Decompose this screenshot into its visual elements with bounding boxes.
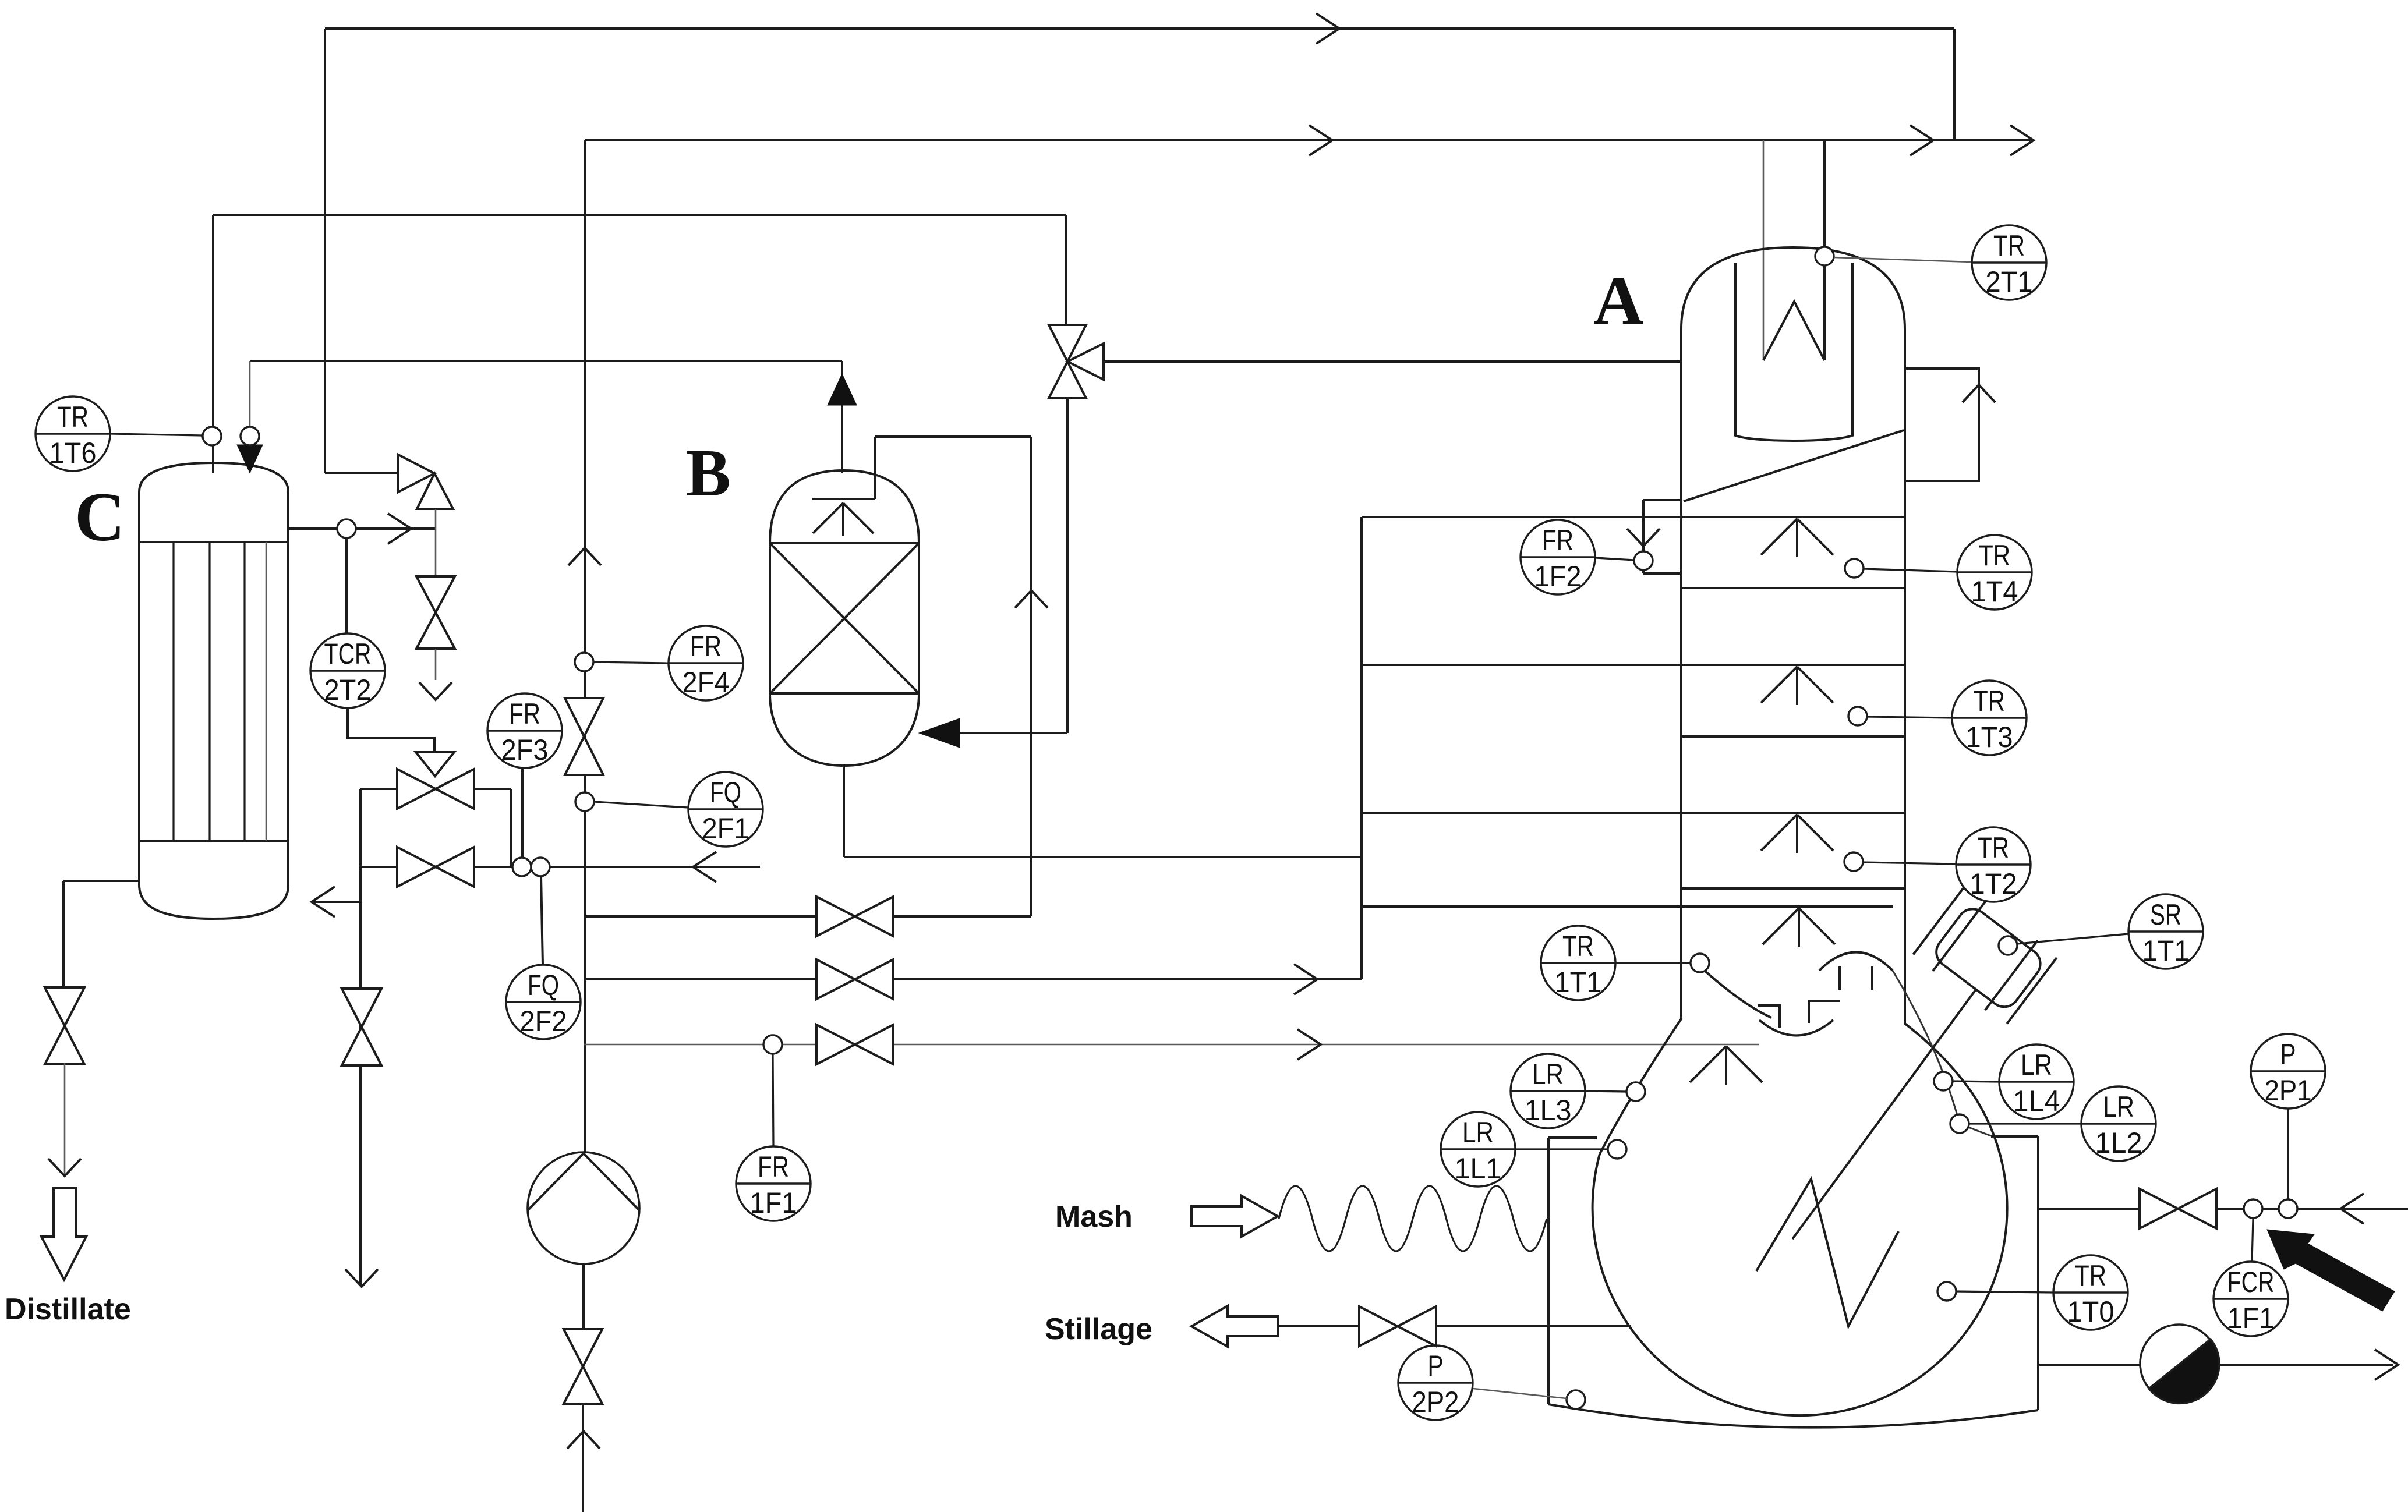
tray symbol 3 bbox=[1761, 815, 1833, 853]
wire left drain vertical bbox=[359, 789, 362, 1286]
svg-text:FR: FR bbox=[758, 1150, 789, 1183]
TCR control arrow bbox=[416, 752, 454, 776]
instrument TR 1T6 bbox=[36, 396, 110, 471]
tray symbol 2 bbox=[1761, 667, 1833, 705]
wire vertical from L1 to angle valve bbox=[324, 29, 326, 473]
pump distillate bbox=[528, 1152, 639, 1264]
condenser C tube 4 bbox=[266, 542, 267, 841]
wire mash riser bbox=[1547, 1138, 1550, 1219]
wire feed drop bbox=[1642, 500, 1645, 552]
valve on riser bbox=[565, 698, 603, 775]
kettle shell bbox=[1593, 1093, 2007, 1415]
black arrow down into C bbox=[237, 445, 263, 473]
wire arrow on L1 bbox=[1316, 13, 1339, 44]
node LR 1L3 tap bbox=[1626, 1082, 1645, 1101]
node twin A bbox=[512, 858, 531, 876]
svg-text:1T3: 1T3 bbox=[1966, 721, 2013, 753]
wire FR 1F2 lead bbox=[1596, 558, 1634, 560]
kettle jacket left wall bbox=[1547, 1138, 1550, 1404]
instrument TR 1T2 bbox=[1956, 827, 2031, 902]
valve on distillate line bbox=[45, 987, 84, 1064]
equipment-label A bbox=[1593, 261, 1644, 339]
column A right wall bbox=[1904, 329, 1906, 1024]
svg-text:LR: LR bbox=[1532, 1058, 1564, 1090]
tray symbol 1 bbox=[1761, 519, 1833, 557]
wire top line L1 (vapor to condenser header) bbox=[325, 29, 1954, 140]
instrument TR 1T1 bbox=[1541, 926, 1615, 1000]
instrument FCR 1F1 bbox=[2213, 1262, 2288, 1336]
wire B feed down-pipe bbox=[874, 437, 876, 499]
node LR 1L2 tap bbox=[1950, 1114, 1969, 1133]
valve on left drain bbox=[342, 989, 381, 1065]
valve on steam line bbox=[2140, 1189, 2216, 1228]
wire FCR lead bbox=[2252, 1218, 2253, 1262]
instrument TR 2T1 bbox=[1972, 225, 2046, 300]
wire valve line 2 bbox=[584, 978, 1362, 980]
vessel B shell bbox=[770, 470, 919, 766]
wire verticals from L2 into column A dome bbox=[1763, 140, 1824, 360]
instrument LR 1L2 bbox=[2081, 1086, 2156, 1161]
wire open arrow vent drain bbox=[419, 682, 452, 700]
wire FR 1F1 lead bbox=[773, 1054, 773, 1146]
condenser C shell bbox=[139, 463, 288, 919]
svg-text:LR: LR bbox=[2103, 1090, 2134, 1123]
wire top line L2 bbox=[585, 139, 2034, 141]
node FR 1F2 tap bbox=[1634, 551, 1653, 570]
wire arrow up on riser bbox=[568, 548, 601, 565]
wire LR 1L4 lead bbox=[1953, 1081, 1999, 1082]
tray ext line 4 bbox=[1362, 905, 1893, 908]
wire B bottoms run bbox=[844, 856, 1362, 858]
node twin B bbox=[531, 858, 550, 876]
vessel B packing X bbox=[770, 543, 919, 693]
svg-text:SR: SR bbox=[2150, 898, 2181, 931]
wire open arrow left drain bbox=[345, 1269, 378, 1287]
wire feed branch top bbox=[1643, 499, 1681, 501]
angle valve body bbox=[398, 455, 453, 509]
wire C inlet right vertical bbox=[249, 361, 251, 473]
node FR 2F4 tap bbox=[575, 653, 593, 671]
svg-text:Mash: Mash bbox=[1055, 1200, 1133, 1234]
svg-text:TCR: TCR bbox=[324, 638, 372, 670]
kettle left shoulder bbox=[1600, 1019, 1681, 1154]
node on C vent line bbox=[337, 519, 356, 538]
tray int line 3 bbox=[1681, 887, 1905, 890]
wire arrow line2 bbox=[1294, 964, 1317, 994]
wire three-way bottom drop bbox=[1066, 398, 1069, 733]
wire FR 2F3 tap bbox=[521, 768, 524, 858]
condenser C tube 3 bbox=[243, 542, 245, 841]
svg-text:Distillate: Distillate bbox=[5, 1293, 131, 1326]
svg-text:TR: TR bbox=[1974, 685, 2005, 717]
helmet left arc bbox=[1705, 971, 1771, 1018]
node LR 1L4 tap bbox=[1934, 1072, 1953, 1090]
instrument FQ 2F1 bbox=[688, 772, 763, 847]
wire three-way to column A bbox=[1104, 360, 1681, 363]
wire arrow up feed bottom bbox=[567, 1431, 600, 1449]
wire arrows on L2 bbox=[1309, 125, 2034, 155]
kettle jacket right wall bbox=[2037, 1136, 2039, 1410]
equipment-label B bbox=[686, 436, 731, 510]
helmet stub 2 bbox=[1871, 966, 1873, 990]
instrument TR 1T4 bbox=[1957, 535, 2032, 610]
svg-text:1L3: 1L3 bbox=[1525, 1094, 1572, 1127]
svg-text:TR: TR bbox=[57, 401, 89, 433]
instrument TR 1T3 bbox=[1952, 681, 2027, 755]
svg-text:FCR: FCR bbox=[2227, 1266, 2275, 1298]
column A chimney diagonal bbox=[1684, 430, 1904, 501]
instrument TR 1T0 bbox=[2053, 1255, 2128, 1330]
wire vertical from L2 main riser bbox=[584, 140, 586, 1155]
valve on vent drain bbox=[416, 576, 455, 649]
svg-text:FQ: FQ bbox=[710, 776, 741, 809]
node FCR tap bbox=[2244, 1199, 2262, 1218]
instrument LR 1L3 bbox=[1511, 1054, 1585, 1128]
svg-text:1T1: 1T1 bbox=[2142, 934, 2190, 967]
valve line3 valve bbox=[816, 1025, 893, 1064]
svg-text:2P2: 2P2 bbox=[1412, 1386, 1459, 1418]
label Distillate bbox=[5, 1293, 131, 1326]
valve bypass lower bbox=[397, 847, 474, 887]
wire TCR output bbox=[348, 708, 434, 752]
svg-text:FQ: FQ bbox=[528, 969, 559, 1001]
column A dome bbox=[1681, 247, 1905, 329]
manifold vertical bbox=[1360, 517, 1363, 979]
node TR 1T1 tap bbox=[1691, 954, 1709, 972]
wire line L4 (vapor B to condenser C) bbox=[250, 360, 842, 362]
wire C reflux inlet bbox=[312, 901, 360, 903]
valve line1 valve bbox=[816, 897, 893, 936]
wire P 2P1 lead bbox=[2287, 1109, 2289, 1199]
svg-text:B: B bbox=[686, 436, 731, 510]
wire angle valve drop bbox=[435, 509, 437, 580]
instrument P 2P1 bbox=[2251, 1034, 2325, 1109]
svg-text:FR: FR bbox=[1542, 524, 1573, 557]
node on C top right bbox=[241, 427, 259, 445]
label Stillage bbox=[1045, 1312, 1152, 1346]
wire bottoms pump line bbox=[2038, 1364, 2393, 1366]
wire bypass right vertical bbox=[510, 789, 512, 867]
kettle jacket stub right bbox=[1991, 1135, 2038, 1138]
wire vertical from L4 down to vessel B vent bbox=[841, 361, 843, 473]
wire C vent outlet right bbox=[288, 527, 436, 530]
helmet top arc bbox=[1819, 952, 1893, 971]
wire arrow line3 bbox=[1297, 1029, 1321, 1060]
wire TR 1T0 lead bbox=[1956, 1291, 2053, 1293]
wire arrow left steam bbox=[2340, 1194, 2364, 1224]
svg-text:1L2: 1L2 bbox=[2095, 1127, 2142, 1159]
wire B side inlet bbox=[955, 732, 1067, 734]
kettle right shoulder bbox=[1905, 1024, 1972, 1093]
three-way valve bbox=[1049, 325, 1104, 398]
instrument TCR 2T2 bbox=[310, 633, 385, 708]
kettle jacket stub left bbox=[1548, 1136, 1597, 1139]
wire TR 2T1 lead bbox=[1834, 257, 1971, 262]
wire C inlet left vertical bbox=[212, 215, 214, 473]
instrument LR 1L1 bbox=[1441, 1112, 1515, 1187]
svg-text:FR: FR bbox=[690, 630, 722, 663]
svg-text:1F1: 1F1 bbox=[2227, 1302, 2275, 1334]
svg-text:1T2: 1T2 bbox=[1970, 867, 2017, 900]
valve control upper bbox=[397, 769, 474, 809]
kettle jacket bottom bbox=[1548, 1404, 2038, 1428]
wire TCR tap bbox=[345, 538, 348, 633]
helmet bracket left bbox=[1758, 1005, 1780, 1028]
svg-text:LR: LR bbox=[1462, 1116, 1494, 1149]
node SR 1T1 tap bbox=[1999, 936, 2017, 955]
wire arrow up in side box bbox=[1963, 385, 1995, 402]
node P 2P1 tap bbox=[2279, 1199, 2297, 1218]
tray ext line 3 bbox=[1362, 812, 1904, 814]
wire feed bottom bbox=[582, 1404, 584, 1512]
instrument FR 2F4 bbox=[669, 626, 743, 700]
svg-text:2T2: 2T2 bbox=[324, 674, 372, 706]
tray int line 2 bbox=[1681, 735, 1905, 738]
condenser C tube 2 bbox=[208, 542, 210, 841]
wire FQ 2F1 lead bbox=[594, 802, 688, 808]
wire arrow right pump line bbox=[2375, 1350, 2398, 1380]
svg-text:TR: TR bbox=[1978, 831, 2009, 864]
svg-text:1L4: 1L4 bbox=[2013, 1085, 2060, 1117]
svg-text:1F1: 1F1 bbox=[750, 1187, 797, 1219]
svg-text:TR: TR bbox=[1979, 539, 2010, 572]
wire arrow down feed drop bbox=[1627, 529, 1660, 546]
kettle inner curve right bbox=[1893, 971, 1991, 1136]
block arrow Distillate bbox=[41, 1188, 86, 1280]
valve stillage bbox=[1359, 1306, 1436, 1346]
svg-text:TR: TR bbox=[2075, 1259, 2106, 1292]
instrument SR 1T1 bbox=[2128, 894, 2203, 969]
instrument FR 1F1 bbox=[736, 1146, 811, 1221]
node 1T4 tap bbox=[1845, 559, 1864, 578]
svg-text:2F3: 2F3 bbox=[501, 734, 549, 766]
wire feed branch bottom bbox=[1643, 570, 1681, 573]
node LR 1L1 tap bbox=[1608, 1140, 1626, 1159]
node P 2P2 tap bbox=[1567, 1390, 1585, 1409]
block arrow Stillage bbox=[1191, 1306, 1278, 1347]
svg-text:1T0: 1T0 bbox=[2067, 1295, 2114, 1328]
wire arrow on C vent line bbox=[388, 514, 411, 544]
wire LR 1L2 lead bbox=[1969, 1123, 2081, 1124]
wire distillate drop bbox=[64, 1063, 66, 1175]
svg-text:P: P bbox=[2280, 1038, 2296, 1071]
svg-text:A: A bbox=[1593, 261, 1644, 339]
wire arrow on lower line bbox=[693, 852, 716, 882]
wire valve line 3 bbox=[584, 1044, 1759, 1046]
block arrow Mash bbox=[1191, 1196, 1278, 1237]
tray int line 1 bbox=[1681, 587, 1905, 589]
wire B bottoms stub bbox=[843, 766, 845, 857]
tray symbol 4 bbox=[1763, 908, 1835, 947]
wire FR 2F4 lead bbox=[593, 662, 669, 663]
node TR 2T1 tap bbox=[1815, 247, 1834, 265]
wire LR 1L1 lead bbox=[1516, 1148, 1608, 1150]
condenser C tube 1 bbox=[172, 542, 174, 841]
svg-text:1T4: 1T4 bbox=[1971, 575, 2018, 608]
wire FQ 2F2 tap bbox=[541, 876, 543, 965]
svg-text:C: C bbox=[75, 478, 125, 555]
wire swan neck bbox=[1763, 302, 1824, 360]
instrument LR 1L4 bbox=[1999, 1044, 2074, 1119]
helmet bracket right bbox=[1809, 1001, 1840, 1023]
helmet smile arc bbox=[1759, 1020, 1833, 1036]
svg-text:FR: FR bbox=[509, 697, 540, 730]
wire bypass upper line bbox=[360, 788, 511, 790]
node 1T2 tap bbox=[1844, 852, 1863, 871]
wire bypass lower line bbox=[360, 866, 760, 868]
instrument P 2P2 bbox=[1398, 1345, 1473, 1420]
kettle heater zigzag bbox=[1756, 1179, 1898, 1326]
pump bottoms bbox=[2140, 1325, 2219, 1403]
wire into angle valve bbox=[325, 472, 398, 474]
svg-text:2P1: 2P1 bbox=[2265, 1074, 2312, 1107]
column A inner cup bbox=[1735, 263, 1852, 441]
black arrow into B bbox=[919, 718, 960, 748]
condenser C top tubesheet bbox=[139, 541, 288, 543]
node FR 1F1 tap bbox=[763, 1035, 782, 1054]
black annotation arrow bbox=[2267, 1230, 2395, 1311]
wire steam supply line bbox=[2038, 1208, 2408, 1210]
instrument FR 1F2 bbox=[1521, 520, 1595, 594]
wire P 2P2 lead bbox=[1473, 1389, 1567, 1398]
svg-text:2F4: 2F4 bbox=[683, 666, 730, 699]
mash feed coil bbox=[1279, 1186, 1547, 1251]
wire TR 1T1 lead bbox=[1616, 962, 1691, 964]
wire TR 1T6 lead bbox=[111, 434, 203, 435]
agitator shaft bbox=[1792, 984, 1980, 1239]
helmet stub 1 bbox=[1838, 966, 1841, 990]
wire stillage line bbox=[1278, 1325, 1631, 1327]
wire C bottom outlet bbox=[63, 881, 139, 990]
svg-text:1F2: 1F2 bbox=[1534, 560, 1582, 593]
wire arrow up B feed riser bbox=[1015, 590, 1048, 608]
wire below pump bbox=[582, 1264, 585, 1330]
node 1T3 tap bbox=[1848, 707, 1867, 725]
wire arrow into C bbox=[312, 887, 335, 917]
wire 1T3 lead bbox=[1867, 717, 1952, 718]
wire 1T2 lead bbox=[1863, 862, 1956, 864]
svg-text:TR: TR bbox=[1993, 229, 2025, 262]
wire B feed riser bbox=[1030, 437, 1032, 916]
tray ext line 1 bbox=[1362, 516, 1904, 518]
vessel B packing top bbox=[770, 542, 919, 544]
wire valve line 1 bbox=[584, 915, 1031, 918]
svg-text:P: P bbox=[1428, 1350, 1444, 1382]
column A left wall bbox=[1680, 329, 1682, 1019]
tray symbol 5 (neck) bbox=[1690, 1046, 1762, 1085]
node FQ 2F1 tap bbox=[575, 792, 594, 811]
vessel B distributor lid bbox=[812, 498, 875, 500]
vessel B packing bottom bbox=[770, 692, 919, 695]
instrument FR 2F3 bbox=[487, 693, 562, 768]
wire 1T4 lead bbox=[1864, 569, 1957, 572]
black arrow up on B vent line bbox=[828, 374, 857, 405]
equipment-label C bbox=[75, 478, 125, 555]
svg-text:TR: TR bbox=[1562, 930, 1594, 962]
svg-text:2F2: 2F2 bbox=[520, 1005, 567, 1037]
valve line2 valve bbox=[816, 959, 893, 999]
vessel B distributor symbol bbox=[813, 503, 874, 536]
wire vertical from L3 to three-way valve bbox=[1065, 215, 1067, 325]
agitator motor bbox=[1912, 886, 2059, 1026]
svg-text:LR: LR bbox=[2021, 1049, 2052, 1081]
column A side box bbox=[1905, 369, 1979, 481]
wire line L3 bbox=[213, 214, 1066, 216]
svg-text:2T1: 2T1 bbox=[1986, 265, 2033, 298]
svg-text:1T1: 1T1 bbox=[1555, 966, 1602, 998]
svg-text:1T6: 1T6 bbox=[49, 437, 97, 469]
instrument FQ 2F2 bbox=[506, 965, 581, 1039]
svg-text:Stillage: Stillage bbox=[1045, 1312, 1152, 1346]
svg-text:2F1: 2F1 bbox=[702, 812, 749, 845]
tray ext line 2 bbox=[1362, 664, 1904, 666]
valve below pump bbox=[564, 1329, 602, 1404]
label Mash bbox=[1055, 1200, 1133, 1234]
node on C top left bbox=[203, 427, 221, 445]
wire LR 1L3 lead bbox=[1586, 1091, 1626, 1092]
wire SR 1T1 lead bbox=[2017, 934, 2128, 944]
wire B feed top run bbox=[875, 435, 1031, 438]
condenser C bottom tubesheet bbox=[139, 840, 288, 842]
svg-text:1L1: 1L1 bbox=[1455, 1152, 1502, 1185]
wire vent drain tail bbox=[435, 649, 437, 680]
wire open arrow distillate bbox=[48, 1159, 81, 1176]
node TR 1T0 tap bbox=[1937, 1282, 1956, 1301]
